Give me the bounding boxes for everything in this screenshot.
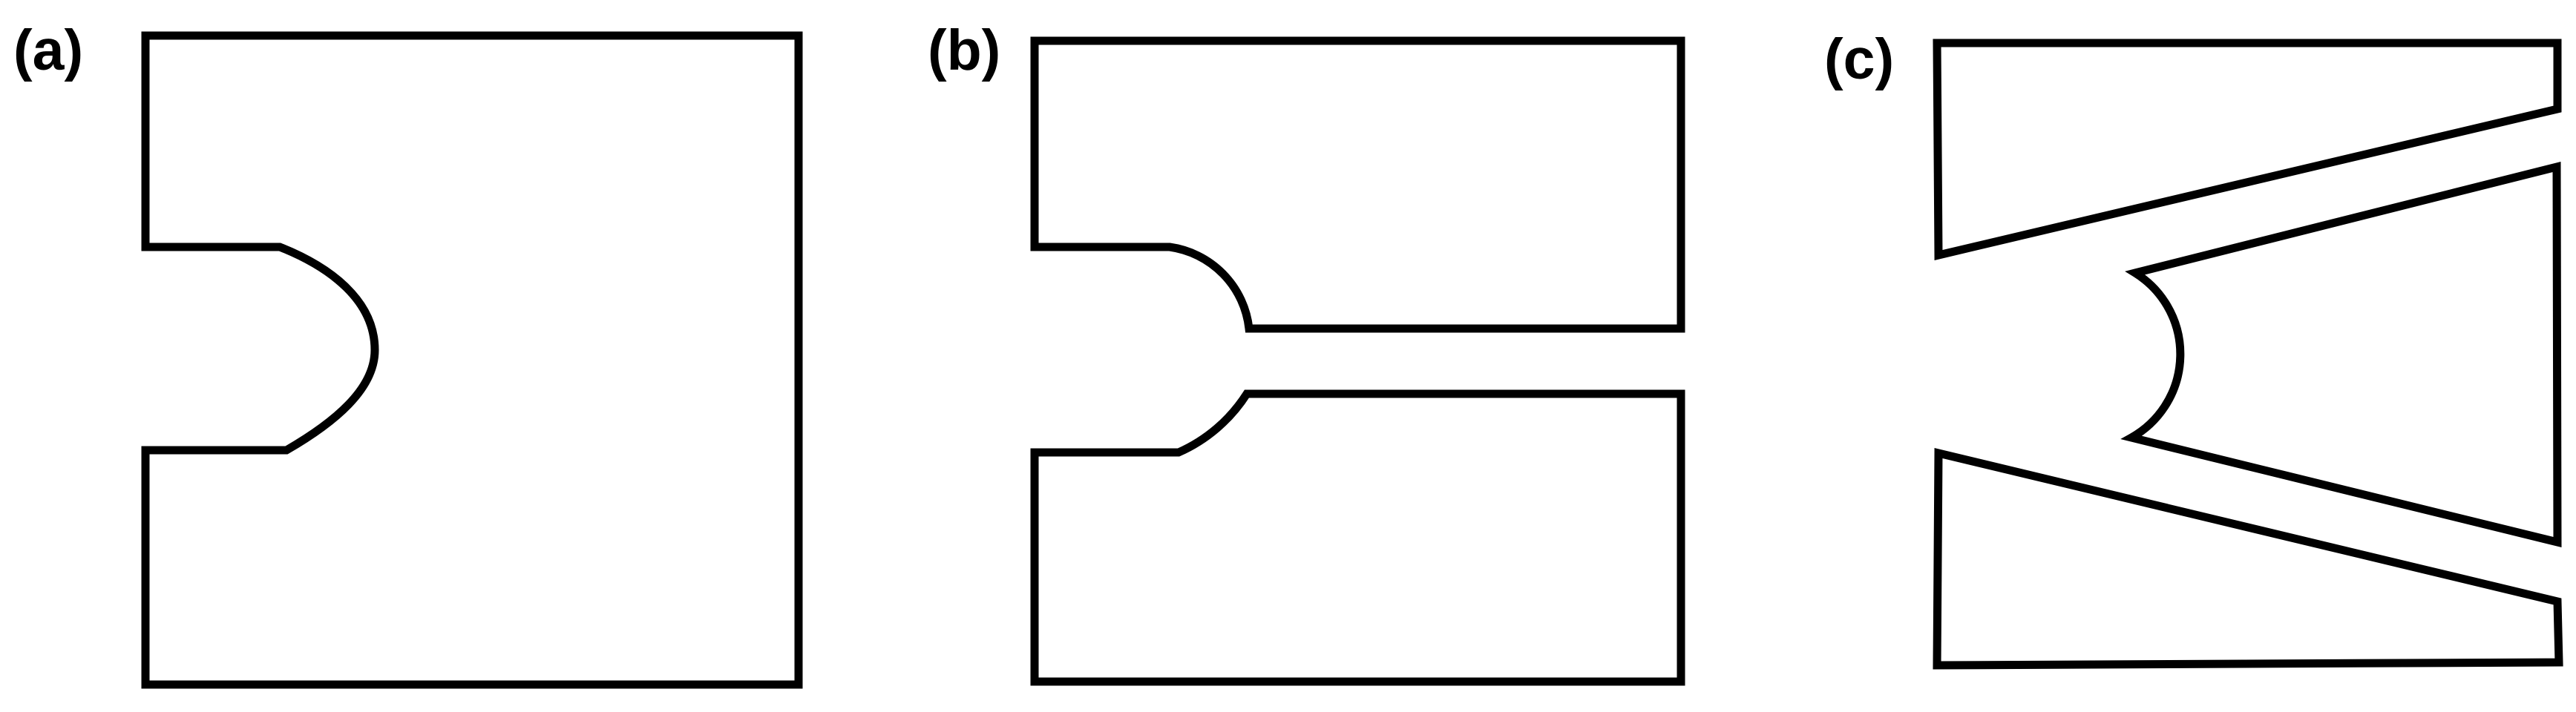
- svg-text:(b): (b): [928, 19, 1000, 82]
- panel c: middle wedge piece with concave notch-tip: [2131, 167, 2557, 542]
- panel b: bottom half specimen: [1035, 394, 1681, 682]
- panel c: top wedge piece: [1937, 43, 2557, 255]
- panel a: square specimen with U-notch: [145, 36, 799, 685]
- svg-text:(c): (c): [1824, 27, 1894, 91]
- svg-text:(a): (a): [13, 19, 83, 82]
- panel c: bottom wedge piece: [1937, 453, 2559, 665]
- panel b: top half specimen: [1035, 41, 1681, 329]
